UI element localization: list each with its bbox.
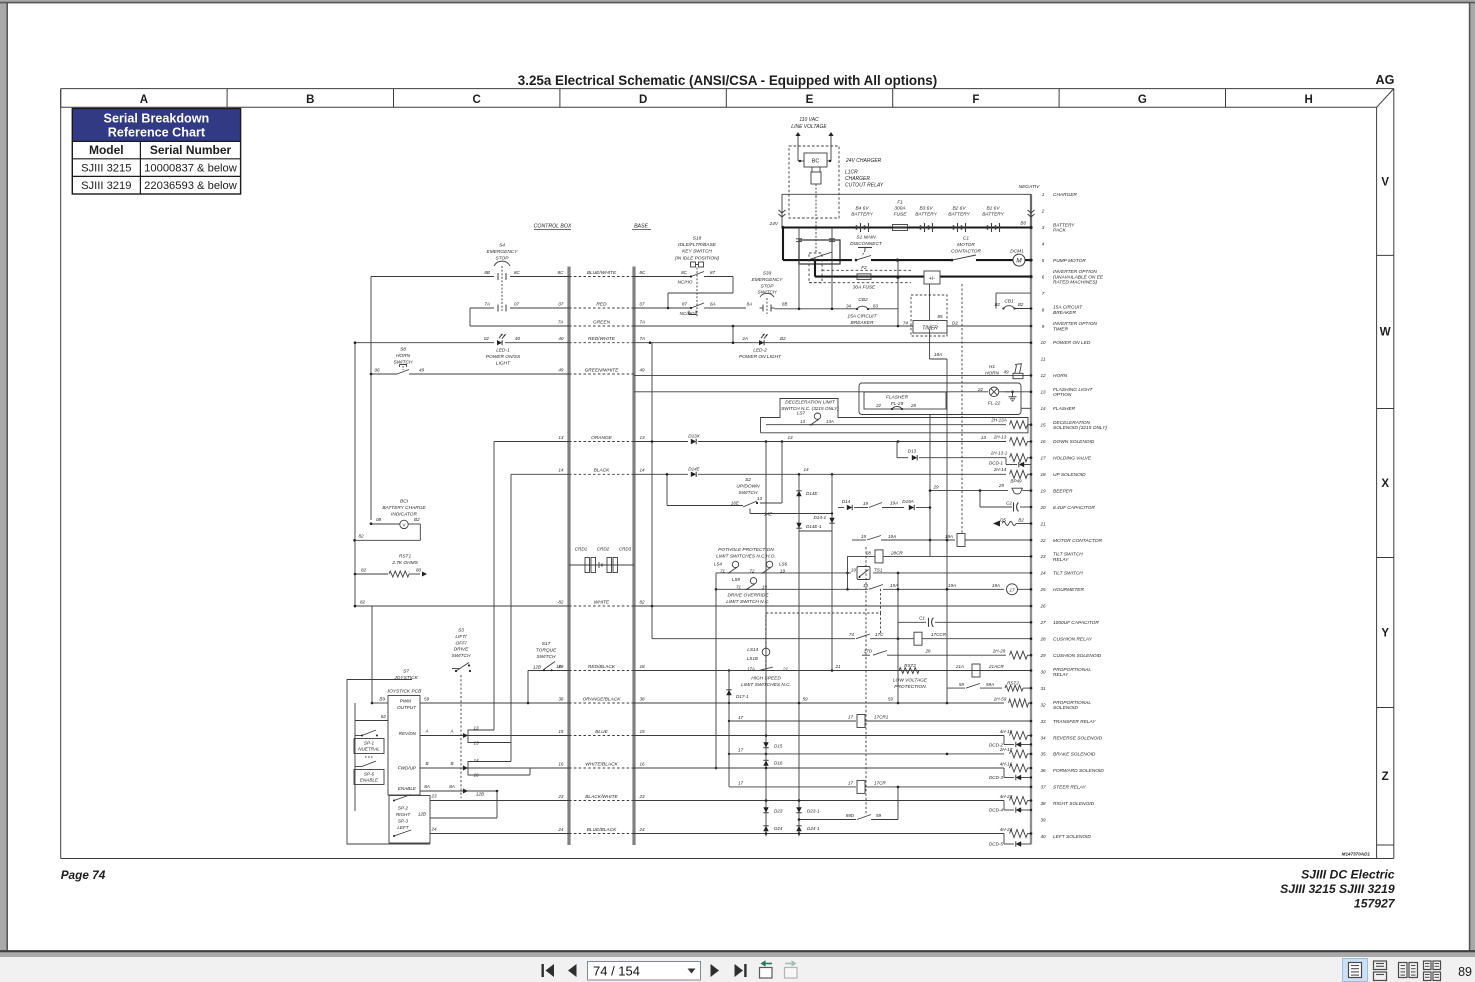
svg-text:D2: D2	[952, 321, 958, 326]
column header band A-H	[61, 88, 1394, 90]
svg-text:11: 11	[1041, 357, 1046, 362]
svg-text:S7: S7	[403, 669, 409, 675]
svg-text:14E: 14E	[764, 512, 773, 517]
svg-text:BASE: BASE	[634, 224, 648, 230]
svg-text:2H-13: 2H-13	[993, 435, 1007, 440]
proportional solenoid row 32 (orange/black)	[420, 702, 569, 704]
coil 28CR	[875, 550, 883, 563]
svg-text:NC/HO: NC/HO	[680, 311, 695, 316]
svg-text:07: 07	[640, 301, 646, 306]
svg-text:DCD-4: DCD-4	[989, 808, 1003, 813]
svg-text:REV/DN: REV/DN	[399, 731, 417, 736]
svg-text:4: 4	[1042, 242, 1045, 247]
svg-text:13: 13	[787, 435, 793, 440]
svg-text:15A CIRCUIT: 15A CIRCUIT	[1053, 305, 1083, 311]
svg-text:NC/HO: NC/HO	[678, 280, 693, 285]
rev/dn row A	[420, 735, 468, 737]
svg-text:ENABLE: ENABLE	[398, 786, 417, 791]
svg-text:14: 14	[558, 468, 564, 473]
svg-text:Page 74: Page 74	[61, 868, 106, 882]
svg-text:Z: Z	[1382, 771, 1389, 783]
diode D13X	[691, 439, 696, 444]
svg-text:INVERTER OPTION: INVERTER OPTION	[1053, 269, 1097, 275]
deceleration enclosure row 15	[761, 399, 1029, 433]
svg-text:82: 82	[640, 599, 646, 604]
inverter option box	[924, 271, 940, 284]
svg-text:BREAKER: BREAKER	[1053, 310, 1076, 316]
svg-text:TRANSFER RELAY: TRANSFER RELAY	[1053, 719, 1096, 725]
svg-text:FUSE: FUSE	[894, 212, 908, 218]
svg-text:1: 1	[1042, 192, 1045, 197]
svg-text:16: 16	[558, 761, 564, 766]
wire BLUE	[569, 735, 634, 737]
svg-text:RATED MACHINES): RATED MACHINES)	[1053, 280, 1098, 286]
svg-text:D14E: D14E	[806, 491, 818, 496]
pump motor row 5	[782, 228, 784, 261]
svg-text:15A CIRCUIT: 15A CIRCUIT	[847, 314, 877, 320]
svg-text:SWITCH: SWITCH	[758, 290, 777, 296]
svg-text:19: 19	[762, 585, 767, 590]
svg-text:13: 13	[757, 496, 763, 501]
svg-text:85: 85	[937, 314, 943, 319]
svg-text:1000UF CAPACITOR: 1000UF CAPACITOR	[1053, 620, 1099, 626]
svg-text:13: 13	[800, 419, 805, 424]
svg-text:LED-2: LED-2	[753, 348, 767, 354]
svg-text:15: 15	[1040, 423, 1046, 428]
svg-text:24: 24	[557, 827, 564, 832]
svg-text:BLUE/WHITE: BLUE/WHITE	[587, 270, 617, 276]
svg-text:16: 16	[640, 761, 646, 766]
svg-text:8A: 8A	[449, 784, 455, 789]
svg-text:LS9: LS9	[732, 577, 741, 582]
svg-text:RELAY: RELAY	[1053, 557, 1069, 563]
svg-text:74 / 154: 74 / 154	[593, 964, 640, 979]
svg-text:RED/WHITE: RED/WHITE	[588, 336, 616, 342]
right solenoid row 38 (black/white)	[430, 800, 569, 802]
svg-text:B2: B2	[414, 517, 420, 522]
limit switch LS14/LS1B assembly	[762, 648, 770, 656]
flashing light row 13	[634, 391, 988, 393]
svg-text:RST2: RST2	[1007, 681, 1019, 686]
svg-text:35: 35	[1040, 752, 1046, 757]
svg-text:24V: 24V	[768, 221, 778, 227]
svg-text:49: 49	[640, 367, 646, 372]
svg-text:L1CR: L1CR	[845, 170, 858, 176]
svg-text:MOTOR CONTACTOR: MOTOR CONTACTOR	[1053, 538, 1103, 544]
toolbar previous view button	[760, 968, 773, 979]
svg-text:10000837 & below: 10000837 & below	[144, 163, 238, 175]
svg-text:F: F	[972, 94, 979, 106]
svg-text:SOLENOID (3215 ONLY): SOLENOID (3215 ONLY)	[1053, 425, 1107, 431]
svg-text:OPTION: OPTION	[1053, 392, 1072, 398]
svg-text:DRIVE: DRIVE	[454, 647, 469, 653]
svg-text:29: 29	[998, 483, 1005, 488]
solenoid 4H-24	[1010, 830, 1028, 838]
svg-text:RIGHT SOLENOID: RIGHT SOLENOID	[1053, 801, 1095, 807]
svg-text:TIMER: TIMER	[922, 326, 938, 332]
svg-text:23: 23	[1039, 554, 1046, 559]
svg-text:18: 18	[640, 664, 646, 669]
fwd/up row B	[420, 767, 468, 769]
svg-text:S2: S2	[745, 477, 751, 483]
cushion relay row 28	[652, 638, 855, 640]
svg-text:LEFT: LEFT	[397, 825, 409, 830]
view mode single page (active)	[1343, 959, 1368, 982]
svg-text:80: 80	[416, 568, 422, 573]
svg-text:15: 15	[473, 741, 479, 746]
diode D15	[763, 742, 768, 747]
LED-1 power light	[355, 342, 494, 344]
svg-text:30: 30	[1040, 669, 1046, 674]
svg-text:BLUE/BLACK: BLUE/BLACK	[587, 827, 617, 833]
svg-text:23: 23	[430, 794, 437, 799]
svg-text:14: 14	[1040, 406, 1046, 411]
svg-text:S18: S18	[693, 236, 702, 242]
down solenoid row 16 (orange)	[494, 441, 569, 443]
svg-text:13: 13	[558, 435, 564, 440]
timer output drop 18A	[929, 329, 931, 359]
svg-text:PACK: PACK	[1053, 228, 1067, 234]
svg-text:PROPORTIONAL: PROPORTIONAL	[1053, 700, 1091, 706]
svg-text:38: 38	[640, 696, 646, 701]
wire BLUE/WHITE	[569, 276, 634, 278]
svg-text:UP/DOWN: UP/DOWN	[736, 483, 760, 489]
svg-text:17: 17	[1040, 456, 1046, 461]
solenoid 2H-59	[1009, 699, 1029, 707]
battery B4 6V	[856, 225, 858, 229]
svg-text:CUSHION SOLENOID: CUSHION SOLENOID	[1053, 653, 1102, 659]
svg-text:23: 23	[557, 794, 564, 799]
coil 21ACR	[972, 664, 980, 677]
charger dashed enclosure	[789, 146, 839, 218]
svg-text:M147370AD1: M147370AD1	[1342, 852, 1371, 857]
svg-text:WHITE: WHITE	[594, 599, 610, 605]
svg-text:18: 18	[1040, 472, 1046, 477]
select contact 59D	[799, 819, 856, 821]
svg-text:87: 87	[682, 302, 688, 307]
svg-text:8A: 8A	[424, 784, 430, 789]
svg-text:LIMIT SWITCH N.C.: LIMIT SWITCH N.C.	[726, 599, 769, 605]
svg-text:FLASHER: FLASHER	[1053, 406, 1076, 412]
svg-text:S4: S4	[499, 243, 505, 249]
svg-text:6: 6	[1042, 274, 1045, 279]
svg-text:KEY SWITCH: KEY SWITCH	[682, 249, 712, 255]
diode column x766	[765, 442, 767, 837]
svg-text:59: 59	[876, 813, 882, 818]
svg-text:B0: B0	[1020, 221, 1026, 226]
svg-text:W: W	[1380, 327, 1391, 339]
svg-text:22036593 & below: 22036593 & below	[144, 180, 238, 192]
base harness bus	[632, 267, 635, 846]
forward solenoid row 36 (white/black)	[420, 767, 569, 769]
bottom toolbar	[0, 957, 1475, 982]
svg-text:3: 3	[1042, 225, 1045, 230]
svg-text:POWER ON LIGHT: POWER ON LIGHT	[739, 354, 782, 360]
svg-text:CHARGER: CHARGER	[1053, 192, 1078, 198]
svg-text:BCI: BCI	[400, 499, 409, 505]
svg-text:17: 17	[738, 748, 744, 753]
svg-text:TILT SWITCH: TILT SWITCH	[1053, 571, 1083, 577]
green wire to timer row 9	[634, 325, 913, 327]
svg-text:22: 22	[875, 403, 881, 408]
horn H1	[1013, 373, 1023, 378]
L1CR contact box	[799, 240, 840, 264]
svg-text:19A: 19A	[888, 534, 896, 539]
svg-text:OFF/: OFF/	[456, 640, 468, 646]
key contact row 8C/87	[634, 276, 690, 278]
svg-text:10: 10	[1040, 340, 1046, 345]
svg-text:49: 49	[558, 367, 564, 372]
coil C1 motor contactor	[957, 534, 965, 547]
svg-text:H1: H1	[989, 364, 995, 370]
key bracket	[732, 277, 734, 294]
svg-text:SWITCH: SWITCH	[452, 653, 471, 659]
wire row 7 to CB1	[996, 292, 1031, 294]
svg-text:16: 16	[1040, 439, 1046, 444]
svg-text:DCD-5: DCD-5	[989, 842, 1003, 847]
svg-text:40: 40	[515, 336, 521, 341]
solenoid 4H-23	[1010, 797, 1028, 805]
svg-text:26: 26	[1039, 604, 1046, 609]
solenoid 2H-28	[1010, 651, 1028, 659]
svg-text:8A: 8A	[747, 302, 752, 307]
svg-text:21ACR: 21ACR	[988, 664, 1004, 669]
svg-text:Reference Chart: Reference Chart	[108, 126, 206, 140]
svg-text:59: 59	[959, 682, 965, 687]
wire RED	[569, 307, 634, 309]
svg-text:8C: 8C	[640, 270, 647, 275]
svg-text:17CR1: 17CR1	[874, 715, 889, 720]
svg-text:S39: S39	[763, 271, 772, 277]
svg-text:D23: D23	[774, 809, 783, 814]
svg-text:32: 32	[1040, 702, 1046, 707]
svg-text:40: 40	[558, 336, 564, 341]
svg-text:S3: S3	[458, 628, 464, 634]
svg-text:21: 21	[1039, 521, 1046, 526]
sp-2 sp-3 box	[389, 796, 430, 844]
coil 17CR1	[857, 715, 865, 728]
svg-text:13: 13	[981, 435, 987, 440]
svg-text:WHITE/BLACK: WHITE/BLACK	[585, 761, 618, 767]
solenoid 2H-13	[1010, 438, 1028, 446]
left rail x371	[370, 277, 372, 521]
svg-text:SJIII 3219: SJIII 3219	[81, 180, 131, 192]
svg-text:17D: 17D	[864, 649, 873, 654]
svg-text:2H-14: 2H-14	[993, 467, 1007, 472]
svg-text:7A: 7A	[484, 302, 490, 307]
svg-text:PROPORTIONAL: PROPORTIONAL	[1053, 667, 1091, 673]
svg-text:OUTPUT: OUTPUT	[397, 705, 417, 710]
view mode facing	[1399, 963, 1408, 978]
diode D16	[763, 760, 768, 765]
svg-text:28: 28	[910, 403, 916, 408]
svg-text:B2: B2	[995, 302, 1001, 307]
wire ORANGE	[569, 441, 634, 443]
battery charger BC	[797, 146, 799, 161]
svg-text:RELAY: RELAY	[1053, 672, 1069, 678]
right row band V-Z	[1376, 107, 1378, 858]
svg-text:DECELERATION: DECELERATION	[1053, 420, 1090, 426]
transfer relay row 33	[729, 720, 856, 722]
svg-text:EMERGENCY: EMERGENCY	[487, 249, 519, 255]
svg-text:DRIVE OVERRIDE: DRIVE OVERRIDE	[727, 593, 769, 599]
svg-text:40: 40	[1040, 834, 1046, 839]
svg-text:(UNAVAILABLE ON EE: (UNAVAILABLE ON EE	[1053, 274, 1104, 280]
svg-text:HORN: HORN	[1053, 373, 1068, 379]
svg-text:E: E	[806, 94, 814, 106]
svg-text:SP-1: SP-1	[364, 741, 375, 746]
neutral switch SP-1	[355, 735, 362, 737]
svg-text:17CCR: 17CCR	[931, 632, 947, 637]
joystick outer enclosure	[347, 680, 430, 845]
svg-text:06: 06	[375, 368, 381, 373]
solenoid 4H-15	[1010, 732, 1028, 740]
svg-text:B9: B9	[379, 697, 385, 702]
svg-text:D23-1: D23-1	[807, 809, 820, 814]
svg-text:30A FUSE: 30A FUSE	[853, 285, 876, 291]
white wire row 26	[355, 605, 569, 607]
svg-text:BATTERY: BATTERY	[915, 212, 937, 218]
svg-text:STOP: STOP	[496, 255, 510, 261]
wire 7A/07 row red	[470, 307, 494, 309]
svg-text:PROTECTION: PROTECTION	[894, 684, 926, 690]
svg-text:59: 59	[888, 697, 894, 702]
svg-text:82: 82	[381, 714, 387, 719]
flasher row 14 stub	[1021, 407, 1031, 409]
right collector bus	[1030, 194, 1032, 844]
svg-text:CUTOUT RELAY: CUTOUT RELAY	[845, 183, 884, 189]
svg-text:19: 19	[861, 534, 867, 539]
svg-text:LINE VOLTAGE: LINE VOLTAGE	[791, 124, 827, 130]
svg-text:22: 22	[977, 387, 984, 392]
svg-text:17CR: 17CR	[874, 781, 886, 786]
svg-text:D: D	[639, 94, 647, 106]
svg-text:2.7K OHMS: 2.7K OHMS	[391, 560, 418, 566]
svg-text:C2: C2	[1006, 501, 1012, 506]
svg-text:TIMER: TIMER	[1053, 326, 1068, 332]
voltmeter V	[400, 520, 408, 528]
svg-text:CRD3: CRD3	[619, 547, 632, 552]
svg-text:14: 14	[473, 758, 479, 763]
svg-text:B: B	[425, 761, 428, 766]
svg-text:C1: C1	[963, 236, 969, 242]
svg-text:7A: 7A	[640, 319, 646, 324]
svg-text:82: 82	[360, 600, 366, 605]
svg-text:AG: AG	[1376, 73, 1395, 87]
diode D14-1	[831, 474, 833, 670]
enable row 8A	[420, 790, 468, 792]
svg-text:LS4: LS4	[714, 562, 723, 567]
svg-text:15: 15	[558, 729, 564, 734]
svg-text:RED: RED	[596, 301, 607, 307]
svg-text:9: 9	[1042, 324, 1045, 329]
svg-text:13A: 13A	[826, 419, 834, 424]
svg-text:49: 49	[419, 368, 425, 373]
svg-text:19: 19	[1040, 488, 1046, 493]
svg-text:BATTERY: BATTERY	[1053, 222, 1075, 228]
svg-text:17: 17	[848, 781, 854, 786]
svg-text:2: 2	[1041, 209, 1045, 214]
battery B2 6V	[953, 225, 955, 229]
svg-text:24: 24	[430, 827, 437, 832]
svg-text:3.25a Electrical Schematic (A: 3.25a Electrical Schematic (ANSI/CSA - E…	[518, 73, 937, 88]
svg-text:FWD/UP: FWD/UP	[398, 766, 417, 771]
svg-text:19: 19	[780, 569, 785, 574]
battery B1 6V	[987, 225, 989, 229]
coil 17CR	[857, 780, 865, 793]
hourmeter HM	[1007, 584, 1018, 595]
toolbar last page button	[735, 964, 744, 977]
vertical x947	[946, 359, 948, 703]
svg-text:23: 23	[639, 794, 646, 799]
svg-text:ENABLE: ENABLE	[360, 778, 379, 783]
solenoid 2H-17	[1010, 750, 1028, 758]
svg-text:19A: 19A	[945, 534, 953, 539]
svg-text:D14E-1: D14E-1	[806, 524, 822, 529]
svg-text:17: 17	[738, 781, 744, 786]
svg-text:STOP: STOP	[761, 283, 775, 289]
svg-text:A: A	[449, 729, 453, 734]
up solenoid row 18 (black)	[511, 473, 569, 475]
svg-text:CB2: CB2	[858, 297, 868, 303]
svg-text:2H-13-1: 2H-13-1	[990, 451, 1008, 456]
svg-text:17: 17	[848, 715, 854, 720]
svg-text:24V CHARGER: 24V CHARGER	[845, 158, 882, 164]
svg-text:D16: D16	[774, 761, 783, 766]
svg-text:TORQUE: TORQUE	[536, 647, 557, 653]
svg-text:HOLDING VALVE: HOLDING VALVE	[1053, 456, 1092, 462]
diode D14E vertical	[796, 491, 801, 496]
svg-text:34: 34	[1040, 735, 1046, 740]
svg-text:15: 15	[640, 729, 646, 734]
view mode continuous facing	[1424, 961, 1432, 970]
svg-text:D13X: D13X	[688, 434, 700, 439]
svg-text:+/-: +/-	[929, 276, 935, 282]
svg-text:82: 82	[361, 568, 367, 573]
svg-text:300A: 300A	[894, 206, 905, 212]
svg-text:17C: 17C	[875, 632, 884, 637]
svg-text:82: 82	[558, 599, 564, 604]
diode D14	[847, 505, 852, 510]
svg-text:NUETRAL: NUETRAL	[358, 747, 380, 752]
svg-text:13: 13	[640, 435, 646, 440]
svg-text:7: 7	[1042, 291, 1045, 296]
svg-text:D24: D24	[774, 826, 783, 831]
solenoid 2H-14	[1010, 470, 1028, 478]
svg-text:24: 24	[639, 827, 646, 832]
limit switch LS6	[766, 561, 772, 567]
svg-text:DCD-1: DCD-1	[989, 461, 1003, 466]
svg-text:BATTERY CHARGE: BATTERY CHARGE	[382, 505, 426, 511]
svg-text:S1 MAIN: S1 MAIN	[856, 235, 876, 241]
left rail x355	[354, 343, 356, 606]
svg-text:FLASHING LIGHT: FLASHING LIGHT	[1053, 387, 1094, 393]
view mode continuous	[1374, 961, 1387, 970]
svg-text:IDLE/FLTR/BASE: IDLE/FLTR/BASE	[678, 242, 717, 248]
svg-text:CHARGER: CHARGER	[845, 176, 870, 182]
diode D13	[912, 455, 917, 461]
row 31 contact	[947, 687, 965, 689]
svg-text:SJIII 3215 SJIII 3219: SJIII 3215 SJIII 3219	[1280, 882, 1395, 896]
svg-text:SWITCH N.C. (3215 ONLY): SWITCH N.C. (3215 ONLY)	[781, 406, 839, 411]
battery pack bus row 3	[783, 226, 1031, 228]
svg-text:B: B	[306, 94, 314, 106]
svg-text:BLACK: BLACK	[594, 468, 611, 474]
svg-text:71: 71	[736, 585, 741, 590]
svg-text:ORANGE: ORANGE	[591, 435, 613, 441]
svg-text:D15: D15	[774, 744, 783, 749]
svg-text:H: H	[1305, 94, 1313, 106]
